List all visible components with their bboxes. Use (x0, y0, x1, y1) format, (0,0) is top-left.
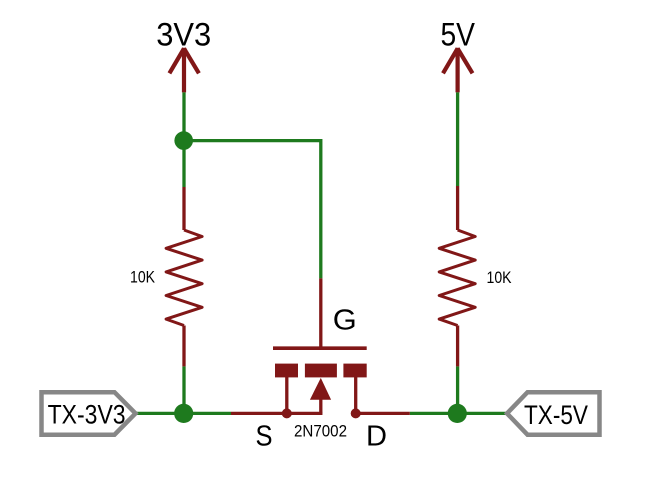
svg-text:TX-5V: TX-5V (524, 400, 588, 430)
svg-text:3V3: 3V3 (156, 16, 211, 52)
svg-text:G: G (333, 305, 357, 337)
svg-text:10K: 10K (130, 267, 156, 286)
svg-text:10K: 10K (487, 268, 513, 287)
svg-text:2N7002: 2N7002 (294, 421, 347, 440)
svg-text:TX-3V3: TX-3V3 (48, 399, 126, 429)
svg-text:D: D (366, 420, 387, 452)
svg-text:S: S (256, 420, 273, 452)
svg-text:5V: 5V (441, 16, 476, 52)
